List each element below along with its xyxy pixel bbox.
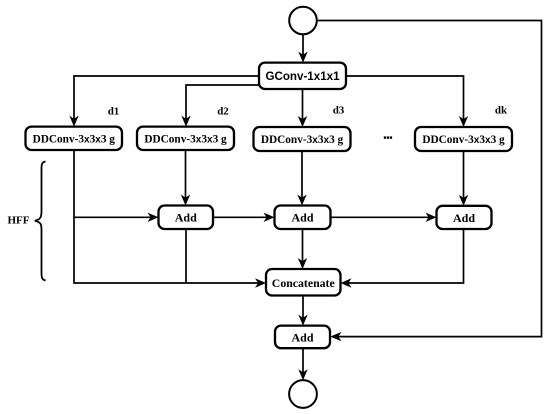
box: DDConv-3x3x3 g (d3) [254,127,351,151]
box: DDConv-3x3x3 g (d2) [137,127,234,150]
box: Add3 [437,206,492,229]
wire: dk column into Add3 [463,151,465,203]
svg-text:Add: Add [453,211,475,225]
wire: Concatenate to bottom Add [302,296,304,323]
box: Add1 [159,206,214,230]
svg-text:Add: Add [175,211,197,225]
wire: GConv left lower to d2 column [186,85,259,124]
wire: GConv bottom to d3 column [302,89,304,124]
label ellipsis between d3 and dk [384,136,392,138]
svg-text:DDConv-3x3x3 g: DDConv-3x3x3 g [422,134,505,146]
svg-text:d3: d3 [333,105,345,117]
wire: GConv right to dk column [346,76,464,124]
svg-text:Add: Add [291,211,313,225]
box: Add2 [275,206,331,230]
brace: HFF curly brace [35,162,46,281]
wire: d1 column down to concatenate-left horizontal [74,150,263,283]
wire: GConv left upper to d1 column [74,76,259,124]
wire: Add3 bottom, down and left into Concatenate right [344,229,464,283]
wire: d2 column into Add1 [185,150,187,203]
box: DDConv-3x3x3 g (d1) [26,127,123,150]
wire: bypass from top node right, down right side, into bottom Add [317,21,542,337]
svg-text:dk: dk [495,105,508,117]
svg-text:d2: d2 [217,106,229,118]
box: Concatenate [266,269,341,296]
wire: branch from d1 column into Add1 [74,216,156,218]
wire: Add2 bottom into Concatenate top [302,229,304,266]
box: GConv-1x1x1 [259,63,346,89]
arrowhead into bottom Add right edge [330,332,341,341]
box: DDConv-3x3x3 g (dk) [415,127,512,151]
node: bottom circle [289,380,317,408]
node: top circle [289,7,317,35]
wire: d3 column into Add2 [301,151,303,203]
svg-text:GConv-1x1x1: GConv-1x1x1 [265,70,340,83]
wire: Add1 to Add2 [213,216,272,218]
wire: Add2 to Add3 [331,216,434,218]
box: bottom Add [275,326,330,349]
svg-text:DDConv-3x3x3 g: DDConv-3x3x3 g [144,134,227,146]
wire: Add1 bottom to horizontal junction [185,229,187,283]
svg-text:HFF: HFF [8,215,30,227]
svg-text:DDConv-3x3x3 g: DDConv-3x3x3 g [261,134,344,146]
wire: top node to GConv [302,34,304,59]
wire: bottom Add to bottom node [302,348,304,377]
svg-text:d1: d1 [108,106,120,118]
svg-text:Concatenate: Concatenate [272,276,335,290]
svg-text:Add: Add [291,330,313,344]
svg-text:DDConv-3x3x3 g: DDConv-3x3x3 g [33,134,116,146]
